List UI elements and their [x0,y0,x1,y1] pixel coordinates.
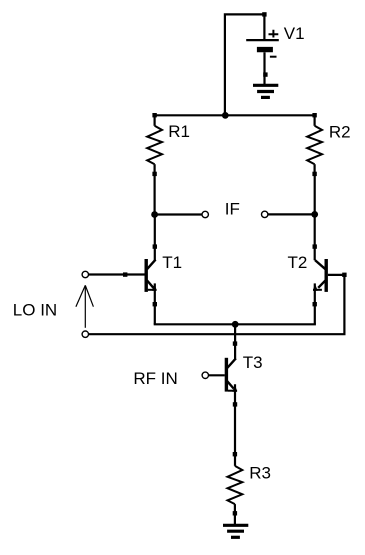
battery V1 [246,12,279,84]
svg-text:IF: IF [225,200,240,219]
resistor R1 [147,113,162,176]
node junction IF right [311,211,318,218]
wire T1 emitter to rail [154,283,156,324]
wire IF right tap [268,213,315,215]
wire rail to T3 collector [234,324,236,360]
node junction IF left [151,211,158,218]
wire IF node to T1 collector [154,215,156,261]
svg-text:R1: R1 [168,122,190,141]
wire top rail to battery V1 [225,14,265,115]
resistor R3 [228,452,243,516]
terminal IF right [262,211,268,217]
wire T3 emitter to R3 [234,384,236,466]
LO IN arrow [76,285,94,327]
node junction V1/top rail [222,112,229,119]
wire LO IN top to T1 base [89,273,145,275]
ground below V1 [253,72,278,97]
svg-text:R2: R2 [329,123,351,142]
wire R1 to IF node [154,174,156,215]
terminal IF left [202,211,208,217]
wire RF IN to T3 base [209,374,225,376]
terminal LO IN bottom [82,331,88,337]
wire IF left tap [155,213,202,215]
wire R2 to T2 collector [314,174,316,260]
wire LO IN bottom to T2 base [89,275,345,334]
wire T2 emitter to rail [314,283,316,324]
node junction emitter rail / T3 [232,321,239,328]
svg-text:T3: T3 [243,353,263,372]
wire R3 to ground [234,513,236,525]
terminal RF IN [202,372,208,378]
svg-text:LO IN: LO IN [13,300,57,319]
svg-text:T2: T2 [288,253,308,272]
wire top rail [155,114,315,116]
ground below R3 [223,525,248,537]
transistor T3 [226,341,237,406]
svg-text:V1: V1 [284,24,305,43]
wire emitter rail [154,323,316,325]
svg-text:R3: R3 [249,464,271,483]
terminal LO IN top [82,271,88,277]
resistor R2 [307,113,322,176]
transistor T1 [123,244,157,306]
svg-text:RF IN: RF IN [133,369,177,388]
transistor T2 [313,244,347,306]
svg-text:T1: T1 [162,253,182,272]
